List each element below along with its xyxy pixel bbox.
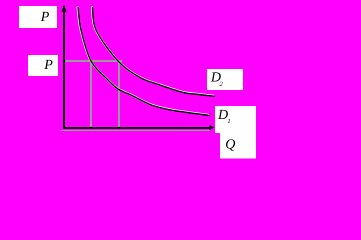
svg-text:P: P bbox=[43, 58, 53, 73]
svg-text:P: P bbox=[40, 10, 50, 25]
label box D1 bbox=[215, 106, 256, 133]
demand curve D2 bbox=[93, 7, 215, 96]
demand curve D2 white highlight bbox=[92, 7, 214, 96]
vertical P axis bbox=[63, 6, 65, 129]
label box D2 bbox=[207, 69, 243, 90]
horizontal Q axis bbox=[63, 127, 211, 129]
guide line vertical at Q1 bbox=[90, 61, 92, 128]
Q axis arrowhead bbox=[210, 125, 215, 130]
guide line vertical at Q2 bbox=[118, 61, 120, 128]
label box P (top, axis label) bbox=[19, 6, 57, 28]
demand curve D1 white highlight bbox=[78, 7, 210, 116]
label box P (price level) bbox=[28, 55, 58, 76]
svg-text:Q: Q bbox=[225, 137, 235, 152]
label box Q bbox=[220, 124, 256, 159]
horizontal axis shadow bbox=[61, 130, 210, 131]
guide line horizontal at price level bbox=[64, 60, 122, 62]
P axis arrowhead bbox=[61, 5, 66, 12]
svg-text:1: 1 bbox=[227, 118, 230, 125]
demand curve D1 bbox=[78, 7, 210, 116]
